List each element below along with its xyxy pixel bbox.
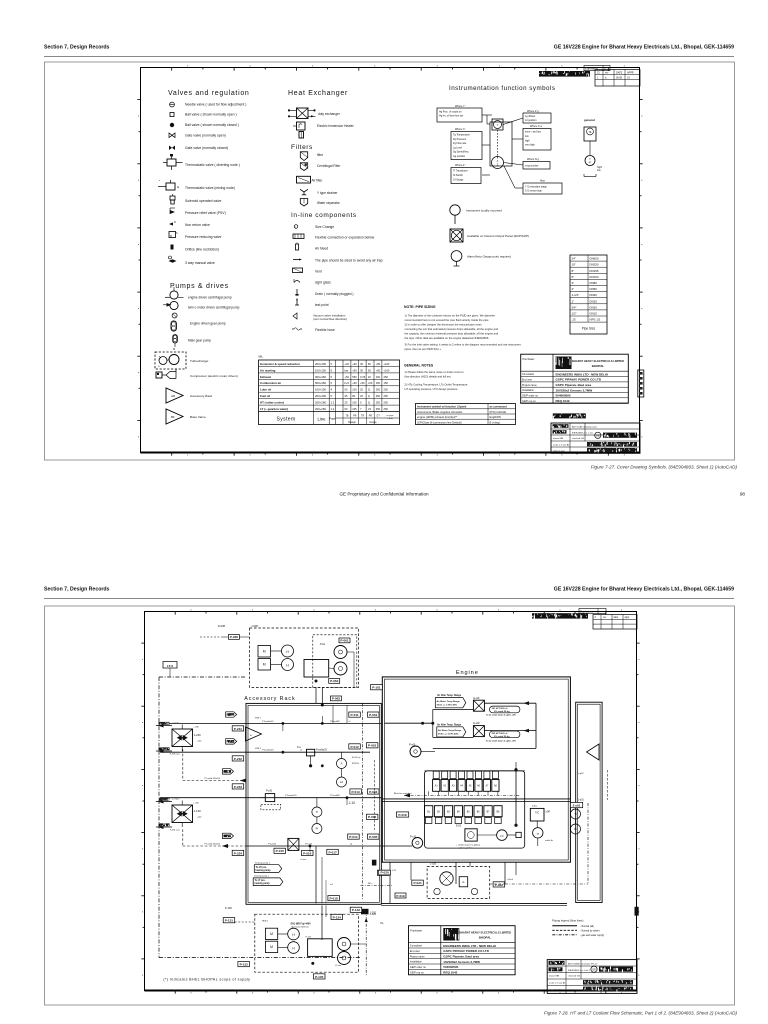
svg-text:391 dP 100% of: 391 dP 100% of — [492, 708, 508, 710]
svg-text:J-x01: J-x01 — [573, 804, 581, 808]
lower module dashed enclosure — [255, 914, 359, 972]
valve symbol: Non return valve — [169, 222, 173, 225]
svg-text:APPR: APPR — [627, 71, 634, 74]
svg-text:250: 250 — [376, 407, 381, 411]
svg-text:+ flow: + flow — [387, 418, 393, 420]
svg-text:5: 5 — [331, 394, 333, 398]
svg-text:P-018: P-018 — [398, 813, 407, 817]
svg-text:rev: rev — [603, 616, 607, 619]
svg-text:Size Change: Size Change — [315, 225, 334, 229]
svg-text:Figure 7-27. Cover Drawing Sym: Figure 7-27. Cover Drawing Symbols. (84E… — [591, 465, 738, 470]
svg-text:engine driven centrifugal pump: engine driven centrifugal pump — [188, 296, 232, 300]
svg-text:P-233: P-233 — [234, 785, 243, 789]
svg-text:150: 150 — [384, 381, 389, 385]
svg-text:Gate valve (normally closed): Gate valve (normally closed) — [185, 146, 228, 150]
svg-text:60: 60 — [345, 407, 348, 411]
svg-text:16V228x2 Gensets 2,7MW: 16V228x2 Gensets 2,7MW — [443, 960, 480, 964]
centrifugal filter symbol — [300, 163, 307, 171]
svg-text:checked GG: checked GG — [572, 438, 584, 440]
revision table page 2 — [593, 615, 637, 630]
svg-text:Base frame: Base frame — [190, 415, 206, 419]
svg-text:100: 100 — [376, 375, 381, 379]
svg-text:E-03: E-03 — [456, 826, 462, 828]
svg-text:P-060: P-060 — [230, 635, 239, 639]
svg-text:PI: PI — [574, 827, 577, 831]
svg-text:6: 6 — [331, 368, 333, 372]
svg-text:J-x20: J-x20 — [370, 912, 377, 916]
svg-text:LT-0: LT-0 — [167, 664, 173, 668]
svg-text:a: a — [250, 734, 252, 737]
svg-text:H: H — [286, 664, 289, 668]
engine instrument circles right — [571, 809, 581, 819]
svg-text:as pipe: as pipe — [386, 415, 394, 417]
svg-text:- Normal (all): - Normal (all) — [580, 925, 594, 928]
instrument locally mounted — [450, 205, 460, 215]
svg-text:The pipe should be sized to av: The pipe should be sized to avoid any ai… — [315, 259, 383, 263]
revision scribble bar page 2 — [532, 613, 588, 618]
svg-text:Filters: Filters — [291, 144, 313, 151]
instrument loop diagram centre — [490, 122, 512, 166]
engine left boxed labels — [371, 685, 383, 690]
svg-text:P-015: P-015 — [276, 849, 285, 853]
svg-text:P-130: P-130 — [225, 906, 232, 910]
page 1 header rule — [44, 56, 734, 58]
svg-text:Section 7, Design Records: Section 7, Design Records — [44, 45, 110, 51]
svg-text:Exhaust: Exhaust — [260, 375, 271, 379]
inline symbol: The pipe should be sized to avoid any air trap — [293, 259, 299, 261]
svg-text:3% rated 50 dg: 3% rated 50 dg — [494, 710, 510, 713]
svg-text:ENGINEERS INDIA LTD - NEW: ENGINEERS INDIA LTD - NEW DELHI — [556, 372, 609, 376]
svg-text:D-008: D-008 — [218, 624, 226, 628]
svg-text:20: 20 — [360, 388, 363, 392]
svg-text:150: 150 — [376, 381, 381, 385]
svg-text:BHOPAL: BHOPAL — [479, 936, 492, 940]
BHEL logo blob — [556, 357, 572, 370]
svg-text:250: 250 — [384, 401, 389, 405]
svg-text:Usage: Usage — [369, 421, 377, 424]
svg-text:Lg Level: Lg Level — [453, 146, 463, 149]
svg-text:39.5C +/- 2 kPa 40%: 39.5C +/- 2 kPa 40% — [437, 703, 457, 706]
valve symbol: 3 way manual valve — [169, 259, 173, 263]
gearbox dashed module — [427, 867, 490, 899]
rack HT return line — [160, 751, 370, 753]
svg-text:Section 7, Design Records: Section 7, Design Records — [44, 587, 110, 593]
valve symbol: Thermostatic valve ( diverting node ) — [167, 159, 176, 166]
svg-text:drawn MM: drawn MM — [549, 975, 559, 978]
svg-text:+J20: +J20 — [197, 741, 202, 743]
svg-text:GE/P req no: GE/P req no — [522, 400, 536, 403]
engine pump P-x00 — [410, 746, 421, 757]
inline symbol: Air bleed — [296, 244, 299, 250]
svg-text:+J20: +J20 — [197, 817, 202, 819]
engine oil cooler cluster — [465, 829, 477, 841]
svg-text:P-003: P-003 — [369, 790, 378, 794]
svg-text:+40: +40 — [345, 362, 350, 366]
pump symbol small circle — [172, 313, 177, 318]
svg-text:250: 250 — [384, 388, 389, 392]
junction dots rack — [282, 722, 285, 725]
svg-text:Air bleed: Air bleed — [315, 247, 328, 251]
svg-text:EH1 M/D Fuji 440V: EH1 M/D Fuji 440V — [291, 923, 312, 926]
svg-text:Instrument symbol w/ function: Instrument symbol w/ function | Speed — [417, 405, 467, 409]
svg-text:heating pump x: heating pump x — [255, 862, 271, 865]
svg-text:504660595: 504660595 — [443, 965, 458, 969]
BHEL logo blob page 2 — [443, 928, 459, 941]
svg-text:+50: +50 — [352, 368, 357, 372]
MIL table footer row — [259, 411, 400, 413]
svg-text:In-line components: In-line components — [291, 212, 357, 219]
lower module pump 1 — [338, 938, 351, 951]
svg-text:REQ 1042: REQ 1042 — [556, 399, 570, 403]
svg-text:outlet tb: outlet tb — [545, 839, 554, 842]
svg-text:general: general — [584, 118, 595, 122]
svg-text:Hg Proc. of output on: Hg Proc. of output on — [439, 111, 462, 114]
svg-text:Generator & speed reduction: Generator & speed reduction — [260, 362, 300, 366]
svg-text:GE/P order no: GE/P order no — [410, 966, 427, 969]
preheater module dashed enclosure — [250, 628, 359, 688]
svg-text:P-012: P-012 — [350, 745, 359, 749]
svg-text:24": 24" — [572, 257, 576, 261]
svg-text:250: 250 — [376, 401, 381, 405]
svg-text:Engine: Engine — [456, 670, 479, 676]
pump symbol: main gear pump — [173, 335, 178, 343]
svg-text:Flexible connection or expansi: Flexible connection or expansion bellow — [315, 236, 375, 240]
svg-text:A: A — [341, 762, 343, 766]
svg-text:B1: B1 — [427, 812, 431, 814]
svg-text:P-005: P-005 — [369, 835, 378, 839]
svg-text:391 dP 100% of: 391 dP 100% of — [492, 733, 508, 735]
svg-text:GI position: GI position — [525, 119, 537, 122]
svg-text:Consultant: Consultant — [522, 373, 534, 376]
svg-text:P-011: P-011 — [351, 713, 359, 717]
svg-text:Flexible hose: Flexible hose — [315, 328, 335, 332]
valve symbol: Gate valve (normally closed) — [169, 146, 175, 151]
svg-text:turbo: turbo — [532, 805, 538, 808]
svg-text:P-135: P-135 — [315, 975, 324, 979]
gearbox small circles — [434, 888, 440, 894]
svg-text:Fg Flow rate: Fg Flow rate — [453, 142, 467, 145]
svg-text:(non normal flow direction): (non normal flow direction) — [313, 317, 347, 321]
engine top header line — [425, 770, 525, 772]
svg-text:Hg lev. of flow then var: Hg lev. of flow then var — [439, 115, 463, 118]
svg-text:- Normal by others: - Normal by others — [580, 930, 600, 933]
rack instrument B1 — [312, 807, 322, 817]
svg-text:TI Transducer: TI Transducer — [453, 170, 468, 173]
svg-text:6": 6" — [572, 275, 575, 279]
svg-text:A2: A2 — [443, 785, 447, 788]
svg-text:Thermostatic valve (mixing nod: Thermostatic valve (mixing node) — [185, 186, 235, 190]
svg-text:5: 5 — [331, 381, 333, 385]
svg-text:the capacity, the minimum exte: the capacity, the minimum external press… — [405, 332, 499, 336]
svg-text:B8: B8 — [496, 812, 500, 814]
svg-text:P-232: P-232 — [234, 757, 243, 761]
svg-text:the pipe. Other data are avail: the pipe. Other data are available on th… — [405, 336, 490, 340]
svg-text:Fuel oil: Fuel oil — [260, 394, 270, 398]
svg-text:1.2: 1.2 — [331, 401, 335, 405]
cylinder block outline — [425, 771, 525, 848]
instrument abbreviation table — [416, 404, 516, 425]
right edge marker page 2 — [635, 907, 639, 916]
equivalent stamp label — [584, 66, 610, 71]
revision scribble bar — [539, 71, 590, 77]
rack dashed risers — [362, 703, 364, 900]
svg-text:P-063: P-063 — [332, 697, 341, 701]
svg-text:M: M — [263, 663, 266, 667]
svg-text:39.5C +/- 2 kPa 40%: 39.5C +/- 2 kPa 40% — [438, 733, 458, 736]
svg-text:100: 100 — [352, 388, 357, 392]
valve symbol: Needle valve ( used for flow adjustment ) — [170, 102, 175, 107]
svg-text:P-133: P-133 — [352, 908, 361, 912]
svg-text:Ha: Ha — [380, 923, 384, 925]
svg-text:E-x02: E-x02 — [473, 722, 480, 725]
svg-text:NOTE: PIPE SIZING: NOTE: PIPE SIZING — [404, 305, 436, 309]
svg-text:very high: very high — [525, 144, 535, 147]
svg-text:Accessory Rack: Accessory Rack — [190, 394, 213, 398]
preheater inner dashed enclosure — [313, 635, 357, 688]
svg-text:Drain ( normally plugged ): Drain ( normally plugged ) — [315, 292, 353, 296]
plant boundary dashed line left — [158, 677, 160, 958]
svg-text:Q: Q — [368, 388, 370, 392]
svg-text:pipes, then as per P&ID 5(A) +: pipes, then as per P&ID 5(A) +. — [405, 347, 443, 351]
accessory rack symbol — [166, 388, 183, 403]
svg-text:P-x00: P-x00 — [409, 744, 416, 747]
lower module dash-dot riser — [365, 911, 367, 976]
svg-text:PT-weld-250x25: PT-weld-250x25 — [204, 843, 221, 845]
GE logo in title block page 2 — [591, 966, 597, 972]
svg-text:3 way manual valve: 3 way manual valve — [185, 261, 215, 265]
gearbox pump box — [459, 877, 468, 887]
engine dash-dot vent line — [404, 794, 520, 796]
dashed vertical right outer — [607, 770, 609, 800]
svg-text:Centrifugal Filter: Centrifugal Filter — [317, 164, 341, 168]
svg-text:high: high — [525, 139, 530, 142]
svg-text:low: low — [597, 169, 601, 172]
svg-text:250: 250 — [384, 394, 389, 398]
svg-text:P-132: P-132 — [240, 963, 249, 967]
electric immersion heater symbol — [297, 122, 306, 130]
svg-text:checked GG: checked GG — [568, 976, 580, 978]
svg-text:HT (+after cooler): HT (+after cooler) — [260, 401, 284, 405]
svg-text:J-130: J-130 — [194, 809, 201, 813]
svg-text:M: M — [263, 650, 266, 654]
lower module connections — [235, 921, 255, 923]
svg-text:NP x: NP x — [368, 883, 373, 885]
valve symbol: Gate valve (normally open) — [169, 133, 175, 138]
plant boundary dashed line top — [159, 676, 246, 678]
svg-text:84E904803 rev. 1 sht: 84E904803 rev. 1 sht — [572, 432, 593, 435]
svg-text:P-004: P-004 — [368, 815, 377, 819]
svg-text:200+300: 200+300 — [315, 394, 326, 398]
svg-text:flow direction (H2O) details: flow direction (H2O) details and full se… — [405, 374, 452, 378]
svg-text:P-welds25: P-welds25 — [316, 750, 327, 752]
svg-text:P-y30: P-y30 — [266, 791, 273, 793]
svg-text:EngD/DN: EngD/DN — [490, 415, 501, 419]
svg-text:P-022: P-022 — [495, 883, 504, 887]
svg-text:AR: AR — [171, 394, 176, 398]
pump symbol: engine gear pump — [171, 321, 176, 331]
svg-text:TB: TB — [346, 415, 349, 417]
svg-text:Air Water Temp Range: Air Water Temp Range — [438, 729, 462, 732]
svg-text:Non return valve: Non return valve — [185, 223, 210, 227]
page 2 header rule — [44, 598, 734, 600]
page 2 page border — [45, 606, 735, 1005]
svg-text:A8: A8 — [494, 785, 498, 788]
svg-text:B6: B6 — [477, 812, 481, 814]
dash-dot stub left of gearbox — [361, 885, 393, 887]
svg-text:+50: +50 — [368, 381, 373, 385]
inline symbol: sight glass — [294, 281, 300, 283]
preheater pump 2 — [334, 662, 347, 675]
svg-text:LT (+ gearbox water): LT (+ gearbox water) — [260, 407, 288, 411]
svg-text:B2: B2 — [437, 812, 441, 814]
svg-text:250: 250 — [384, 375, 389, 379]
svg-text:Water separator: Water separator — [317, 201, 341, 205]
svg-text:End user: End user — [410, 950, 420, 953]
svg-text:DN195: DN195 — [590, 269, 599, 273]
svg-text:P-001: P-001 — [369, 713, 378, 717]
svg-text:Where X :: Where X : — [455, 128, 466, 131]
svg-text:ta: ta — [537, 833, 540, 836]
svg-text:Tg Temperature: Tg Temperature — [453, 134, 471, 137]
svg-text:Y S redundant stage: Y S redundant stage — [525, 186, 547, 189]
svg-text:Where Z g: Where Z g — [527, 110, 539, 113]
svg-text:30: 30 — [360, 362, 363, 366]
svg-text:duty exchanger: duty exchanger — [318, 112, 341, 116]
svg-text:heating pump: heating pump — [256, 869, 272, 872]
svg-text:GE 16V228 Engine for Bharat He: GE 16V228 Engine for Bharat Heavy Electr… — [554, 45, 734, 51]
svg-text:appr: appr — [625, 616, 630, 619]
svg-text:Where N g: Where N g — [527, 158, 540, 161]
svg-text:Vent: Vent — [315, 270, 322, 274]
rack extended base line — [381, 902, 567, 904]
rack LT main line — [160, 797, 381, 799]
svg-text:DN25: DN25 — [590, 299, 598, 303]
svg-text:PI: PI — [316, 827, 319, 831]
rack instrument A1 — [337, 759, 347, 769]
svg-text:PT-welds25: PT-welds25 — [285, 795, 297, 797]
svg-text:J-21: J-21 — [392, 870, 397, 872]
svg-text:engine (HP/B) exhaust (km)/k: engine (HP/B) exhaust (km)/kpa** — [417, 415, 457, 419]
svg-text:S S sensor legs: S S sensor legs — [525, 190, 543, 193]
preheater pump 1 — [334, 646, 347, 659]
svg-text:GI Gauge: GI Gauge — [453, 179, 464, 182]
air filter symbol — [297, 176, 311, 183]
svg-text:21: 21 — [597, 71, 600, 74]
svg-text:Pipe Size: Pipe Size — [582, 327, 596, 331]
pump symbol: engine centrifugal pump — [170, 291, 178, 299]
HT charge air cooler circuit 2 — [437, 727, 466, 737]
svg-text:low: low — [525, 135, 529, 138]
rack pentagon flag 2 — [253, 878, 283, 886]
rack instrument B2 — [312, 824, 322, 834]
drawing number black bar — [553, 413, 586, 418]
svg-text:1: 1 — [597, 76, 599, 79]
svg-text:BF: BF — [171, 415, 175, 419]
svg-text:50: 50 — [368, 368, 371, 372]
svg-text:Lube oil: Lube oil — [260, 388, 271, 392]
inline symbol: Size Change — [294, 225, 298, 229]
svg-text:V2: V2 — [368, 407, 372, 411]
svg-text:Where Y :: Where Y : — [455, 105, 466, 108]
svg-text:Air Water Temp Range: Air Water Temp Range — [437, 700, 461, 703]
svg-text:M: M — [270, 932, 273, 936]
inline symbol: Drain ( normally plugged ) — [296, 289, 298, 294]
svg-text:Y type strainer: Y type strainer — [317, 191, 338, 195]
svg-text:heating pump: heating pump — [255, 882, 271, 885]
svg-text:Equivalent: Equivalent — [580, 609, 593, 613]
svg-text:8": 8" — [572, 269, 575, 273]
svg-text:25: 25 — [345, 401, 348, 405]
container right riser — [515, 771, 517, 825]
turbocharger block — [530, 808, 544, 821]
svg-text:*: * — [159, 179, 161, 183]
valve symbol: Thermostatic valve (mixing node) — [166, 183, 175, 190]
svg-text:- gas and water supply: - gas and water supply — [580, 934, 605, 937]
svg-text:HTB 2: HTB 2 — [255, 748, 262, 750]
rack bottom connector verticals — [315, 846, 317, 903]
svg-text:Turbocharger: Turbocharger — [190, 359, 208, 363]
svg-text:Pressure reducing valve: Pressure reducing valve — [185, 235, 221, 239]
svg-text:45: 45 — [345, 394, 348, 398]
svg-text:A5: A5 — [469, 785, 473, 788]
svg-text:H: H — [292, 933, 295, 937]
svg-text:Piping legend (flow lines): Piping legend (flow lines) — [552, 919, 583, 923]
svg-text:2: 2 — [595, 616, 597, 619]
lower module heater H1 — [288, 928, 300, 940]
svg-text:HT operating pressure, LTO de: HT operating pressure, LTO design pressu… — [405, 387, 459, 391]
svg-text:P-018: P-018 — [329, 897, 338, 901]
svg-text:Needle valve ( used for flow a: Needle valve ( used for flow adjustment … — [185, 103, 246, 107]
svg-text:To HT pre-: To HT pre- — [256, 867, 268, 869]
svg-text:Installation: Installation — [522, 389, 535, 392]
svg-text:+0: +0 — [348, 721, 351, 723]
svg-text:x 2 fans: x 2 fans — [172, 722, 181, 724]
svg-text:TE: TE — [589, 132, 592, 134]
svg-text:recommended here to not exceed: recommended here to not exceed the max f… — [405, 318, 489, 322]
gearbox motor circle — [440, 872, 453, 885]
svg-text:B7: B7 — [487, 812, 491, 814]
svg-text:J-10: J-10 — [349, 801, 355, 805]
svg-text:x1: x1 — [300, 750, 303, 752]
svg-text:To LT pre-: To LT pre- — [255, 880, 266, 882]
svg-text:300+360: 300+360 — [315, 375, 326, 379]
svg-text:504660595: 504660595 — [556, 394, 571, 398]
radiator tag flags — [226, 712, 237, 717]
compressor symbol — [156, 372, 162, 378]
svg-text:P-234: P-234 — [234, 851, 243, 855]
svg-text:scale 1:1 size A1: scale 1:1 size A1 — [553, 443, 570, 446]
svg-text:200+260: 200+260 — [315, 401, 326, 405]
svg-text:Design: Design — [348, 421, 356, 424]
svg-text:JS: JS — [627, 76, 630, 79]
engine enclosure double line — [382, 677, 570, 862]
svg-text:AUTOCAD drawing name: AUTOCAD drawing name — [572, 426, 598, 429]
svg-text:Consultant: Consultant — [410, 945, 422, 948]
svg-text:GENERAL NOTES: GENERAL NOTES — [404, 364, 434, 368]
svg-text:x 2 fans: x 2 fans — [172, 798, 181, 800]
plant boundary dashed line bottom — [159, 957, 360, 959]
engine bottom connectors — [389, 862, 391, 903]
svg-text:P-062: P-062 — [330, 679, 339, 683]
svg-text:sheet 2 of 2: sheet 2 of 2 — [549, 988, 561, 991]
svg-text:GE: GE — [596, 434, 600, 438]
svg-text:connecting the min that estima: connecting the min that estimated pressu… — [405, 327, 499, 331]
radiator module 2 — [172, 805, 193, 823]
svg-text:5: 5 — [331, 362, 333, 366]
svg-text:J-p03: J-p03 — [578, 773, 584, 775]
svg-text:TI: TI — [574, 812, 577, 816]
rack thermostatic valve — [265, 794, 274, 802]
